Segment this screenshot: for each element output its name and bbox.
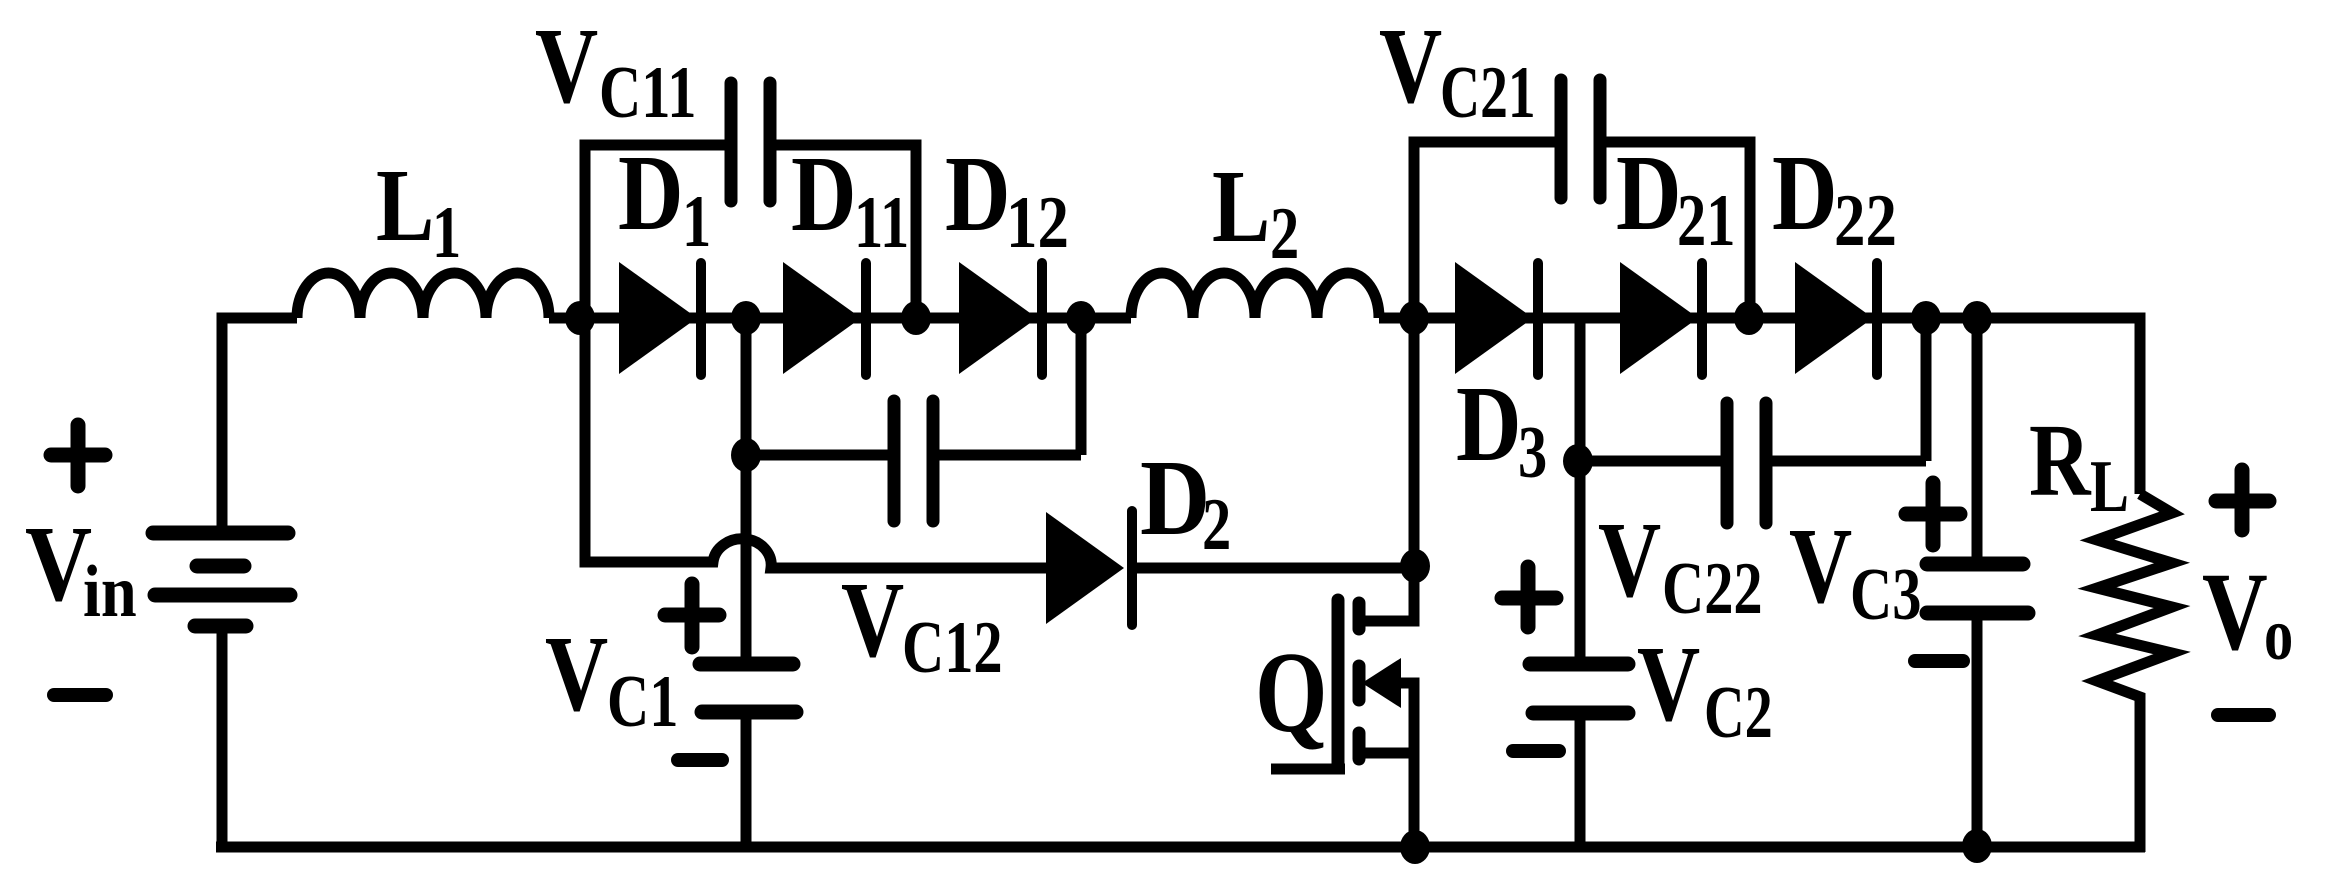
mosfet top channel bar — [1353, 603, 1366, 629]
inductor L2 — [1131, 273, 1379, 318]
minus sign VC1 — [678, 753, 722, 767]
wire bottom bar lead — [1359, 748, 1414, 759]
svg-text:V: V — [1637, 624, 1700, 744]
svg-text:3: 3 — [1518, 413, 1547, 494]
svg-text:V: V — [1789, 506, 1852, 626]
svg-text:D: D — [1616, 133, 1682, 253]
node drain D2 junction — [1400, 549, 1430, 583]
capacitor VC22 — [1727, 403, 1766, 523]
svg-text:21: 21 — [1677, 181, 1735, 262]
wire D3 riser — [1575, 318, 1586, 461]
svg-text:C3: C3 — [1850, 555, 1921, 636]
wire D2 cathode to drain node — [1137, 563, 1414, 574]
node after D21 — [1734, 301, 1764, 335]
svg-text:D: D — [1456, 364, 1522, 484]
wire node A down and hop to D2 — [585, 318, 1046, 568]
node A — [565, 301, 595, 335]
svg-text:12: 12 — [1006, 181, 1069, 263]
svg-text:V: V — [1379, 6, 1442, 126]
diode D1 — [619, 262, 697, 374]
minus sign VC2 — [1513, 744, 1559, 758]
svg-text:D: D — [1772, 133, 1838, 253]
svg-text:in: in — [83, 551, 137, 633]
wire VC21 right bracket — [1606, 142, 1750, 318]
svg-text:C12: C12 — [902, 608, 1003, 689]
node VC22 junction — [1563, 444, 1593, 478]
node after D22 right — [1962, 301, 1992, 335]
wire battery bottom riser — [217, 626, 228, 852]
wire VC2 bottom riser — [1575, 713, 1586, 852]
minus sign Vin — [54, 688, 106, 702]
node VC12 junction — [731, 438, 761, 472]
svg-text:V: V — [2202, 551, 2268, 673]
node E — [1399, 301, 1429, 335]
mosfet gate bar — [1332, 600, 1345, 768]
node VC3 bottom rail — [1962, 829, 1992, 863]
svg-text:L: L — [1212, 148, 1270, 264]
plus sign VC3 — [1906, 483, 1960, 545]
node C — [901, 301, 931, 335]
svg-text:2: 2 — [1202, 485, 1231, 566]
svg-text:D: D — [945, 134, 1011, 254]
capacitor VC2 — [1530, 657, 1628, 672]
svg-text:C1: C1 — [607, 662, 678, 743]
svg-text:C22: C22 — [1662, 549, 1763, 630]
svg-text:V: V — [1598, 500, 1661, 620]
svg-text:V: V — [535, 6, 598, 126]
wire VC3 riser — [1972, 318, 1983, 564]
wire drain node riser — [1409, 318, 1420, 566]
capacitor VC21 — [1561, 80, 1600, 198]
svg-text:V: V — [545, 614, 608, 734]
wire VC21 left bracket — [1414, 142, 1556, 318]
plus sign Vo — [2216, 470, 2269, 530]
wire VC3 bottom riser — [1972, 613, 1983, 852]
wire VC1 riser — [741, 455, 752, 664]
svg-text:11: 11 — [854, 183, 909, 264]
node source bottom rail — [1400, 830, 1430, 864]
plus sign Vin — [51, 425, 105, 486]
svg-text:V: V — [25, 503, 92, 623]
wire source lead — [1399, 683, 1414, 852]
svg-text:C11: C11 — [599, 53, 696, 134]
diode D21 — [1620, 262, 1698, 374]
wire VC2 riser — [1575, 461, 1586, 664]
svg-text:L: L — [376, 147, 434, 263]
svg-text:Q: Q — [1255, 629, 1327, 756]
capacitor VC11 — [731, 83, 770, 201]
wire bottom rail — [216, 842, 2145, 853]
svg-text:1: 1 — [682, 182, 711, 263]
svg-text:L: L — [2090, 447, 2129, 528]
svg-text:V: V — [841, 560, 904, 680]
minus sign Vo — [2218, 708, 2269, 722]
diode D22 — [1795, 262, 1873, 374]
wire VC22 left lead — [1580, 456, 1721, 467]
capacitor VC12 — [894, 401, 933, 521]
capacitor VC3 — [1927, 557, 2023, 572]
svg-text:D: D — [1140, 438, 1210, 558]
resistor RL — [2097, 494, 2172, 852]
wire main bus middle — [549, 313, 1131, 324]
wire VC11 left bracket — [585, 145, 726, 318]
diode D11 — [783, 262, 861, 374]
svg-text:o: o — [2264, 595, 2293, 676]
svg-text:D: D — [618, 133, 684, 253]
wire left loop from battery top to L1 — [222, 318, 297, 533]
wire main bus right to RL top — [1379, 318, 2140, 494]
wire drain lead — [1365, 566, 1414, 621]
svg-text:C21: C21 — [1440, 53, 1536, 134]
capacitor VC1 — [700, 657, 793, 672]
svg-text:1: 1 — [432, 193, 461, 274]
node B — [731, 301, 761, 335]
svg-text:2: 2 — [1270, 194, 1299, 275]
plus sign VC1 — [665, 584, 719, 647]
svg-text:22: 22 — [1834, 179, 1897, 261]
wire gate lead — [1271, 764, 1345, 775]
node after D22 left — [1911, 301, 1941, 335]
minus sign VC3 — [1915, 654, 1963, 668]
mosfet body arrow — [1362, 658, 1401, 708]
diode D2 — [1046, 512, 1124, 624]
node D — [1066, 301, 1096, 335]
diode D12 — [959, 262, 1037, 374]
svg-text:D: D — [791, 134, 857, 254]
inductor L1 — [297, 273, 549, 318]
battery Vin — [153, 526, 288, 541]
wire VC12 right lead — [939, 318, 1081, 455]
wire node B riser — [741, 318, 752, 455]
diode D3 — [1455, 262, 1533, 374]
wire VC11 right bracket — [775, 145, 916, 318]
svg-text:C2: C2 — [1704, 672, 1773, 754]
wire VC22 right lead — [1772, 318, 1926, 461]
mosfet bottom channel bar — [1353, 733, 1366, 759]
wire VC1 bottom riser — [741, 712, 752, 852]
plus sign VC2 — [1502, 567, 1556, 627]
wire VC12 left lead — [746, 450, 888, 461]
svg-text:R: R — [2029, 402, 2092, 518]
mosfet middle channel bar — [1353, 666, 1366, 700]
